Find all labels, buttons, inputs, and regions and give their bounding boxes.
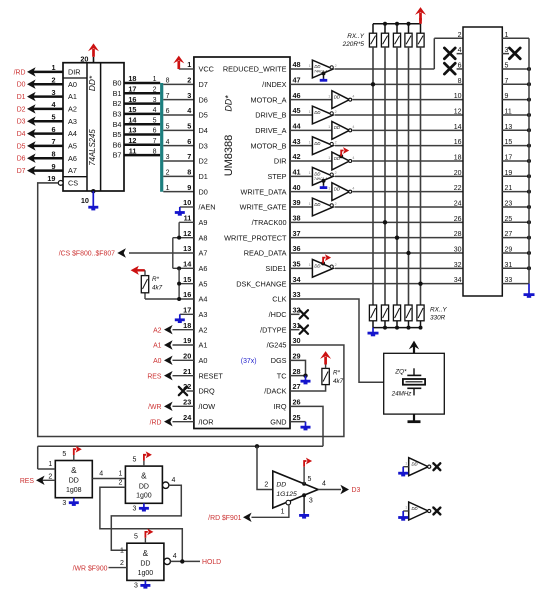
svg-text:11: 11 bbox=[129, 146, 137, 155]
svg-text:A5: A5 bbox=[199, 279, 208, 288]
svg-text:D7: D7 bbox=[199, 80, 208, 89]
svg-text:2: 2 bbox=[264, 482, 268, 489]
svg-text:DD: DD bbox=[314, 202, 320, 207]
74LS245 pin 20 VCC bbox=[93, 57, 95, 63]
svg-text:GND: GND bbox=[270, 417, 286, 426]
svg-text:/G245: /G245 bbox=[267, 341, 287, 350]
svg-text:15: 15 bbox=[128, 105, 136, 114]
svg-text:22: 22 bbox=[454, 185, 462, 192]
svg-text:A0: A0 bbox=[68, 80, 77, 89]
svg-text:DD: DD bbox=[314, 172, 320, 177]
connector pin 3 bbox=[502, 53, 509, 55]
svg-text:21: 21 bbox=[505, 185, 513, 192]
row 34 DSK_CHANGE wire bbox=[290, 283, 463, 285]
svg-text:4: 4 bbox=[99, 470, 103, 477]
svg-text:4: 4 bbox=[352, 186, 354, 190]
svg-text:13: 13 bbox=[128, 126, 136, 135]
svg-text:DD*: DD* bbox=[87, 75, 97, 91]
svg-text:12: 12 bbox=[183, 229, 191, 238]
svg-text:5: 5 bbox=[505, 62, 509, 69]
connector pin 9 bbox=[502, 99, 529, 101]
svg-text:33: 33 bbox=[505, 277, 513, 284]
svg-text:R*: R* bbox=[333, 370, 341, 377]
svg-text:A7: A7 bbox=[199, 249, 208, 258]
svg-text:DD: DD bbox=[69, 478, 79, 485]
svg-text:10: 10 bbox=[454, 93, 462, 100]
svg-text:220R*5: 220R*5 bbox=[342, 41, 365, 48]
wire B6 bbox=[124, 144, 160, 147]
svg-text:DD: DD bbox=[334, 125, 340, 130]
svg-text:/DACK: /DACK bbox=[264, 387, 286, 396]
svg-text:/RD: /RD bbox=[150, 419, 162, 426]
svg-text:1: 1 bbox=[309, 171, 311, 175]
svg-text:2: 2 bbox=[335, 110, 337, 114]
row 38 /TRACK00 wire bbox=[290, 221, 463, 223]
svg-text:1: 1 bbox=[328, 156, 330, 160]
svg-text:D6: D6 bbox=[199, 95, 208, 104]
svg-text:2: 2 bbox=[335, 202, 337, 206]
wire 1g00A out to 1g00B pin1 bbox=[111, 485, 181, 550]
svg-text:D1: D1 bbox=[17, 94, 26, 101]
svg-text:A4: A4 bbox=[68, 129, 77, 138]
svg-text:B4: B4 bbox=[113, 120, 122, 129]
svg-text:36: 36 bbox=[293, 244, 301, 253]
pull-up/down columns bbox=[372, 47, 374, 305]
svg-text:1: 1 bbox=[405, 461, 407, 465]
svg-text:B3: B3 bbox=[113, 110, 122, 119]
resistor R* 4k7 (address pull-up) bbox=[144, 293, 146, 299]
svg-text:/DTYPE: /DTYPE bbox=[260, 325, 286, 334]
wire B5 bbox=[124, 133, 160, 136]
wire B3 bbox=[124, 113, 160, 116]
svg-text:5: 5 bbox=[308, 476, 312, 483]
wire A2 pin18 bbox=[173, 329, 194, 331]
svg-text:20: 20 bbox=[183, 352, 191, 361]
svg-text:24: 24 bbox=[183, 413, 192, 422]
svg-text:DD: DD bbox=[334, 156, 340, 161]
connector pin 11 bbox=[502, 114, 529, 116]
svg-text:1G125: 1G125 bbox=[276, 491, 297, 498]
connector pin 31 bbox=[502, 267, 529, 269]
svg-text:18: 18 bbox=[128, 74, 136, 83]
svg-text:18: 18 bbox=[183, 321, 191, 330]
svg-text:4k7: 4k7 bbox=[333, 378, 344, 385]
svg-text:A6: A6 bbox=[199, 264, 208, 273]
svg-text:D5: D5 bbox=[17, 143, 26, 150]
row 36 READ_DATA wire bbox=[290, 252, 463, 254]
svg-text:DGS: DGS bbox=[271, 356, 287, 365]
svg-text:3: 3 bbox=[166, 154, 170, 161]
svg-text:7: 7 bbox=[51, 137, 55, 146]
svg-text:2: 2 bbox=[48, 473, 52, 480]
svg-text:RESET: RESET bbox=[199, 371, 224, 380]
wire D7 bbox=[31, 169, 63, 172]
svg-text:8: 8 bbox=[153, 148, 157, 155]
buffer U3 row48 (inverter with gnd) bbox=[312, 60, 333, 78]
svg-text:A7: A7 bbox=[68, 166, 77, 175]
A9/A8/A6/A5/A4 tie bracket bbox=[179, 221, 194, 223]
resistor network RX.Y 220R*5 bbox=[373, 23, 421, 25]
svg-text:RX..Y: RX..Y bbox=[430, 307, 447, 314]
svg-text:B7: B7 bbox=[113, 151, 122, 160]
svg-text:43: 43 bbox=[293, 137, 301, 146]
svg-text:WRITE_DATA: WRITE_DATA bbox=[241, 187, 287, 196]
svg-text:/TRACK00: /TRACK00 bbox=[252, 218, 287, 227]
svg-text:1: 1 bbox=[281, 509, 285, 516]
wire B0 bbox=[124, 82, 160, 85]
svg-text:DD: DD bbox=[314, 64, 320, 69]
connector pin 21 bbox=[502, 191, 529, 193]
svg-text:6: 6 bbox=[166, 108, 170, 115]
DRQ pin22 no-connect X bbox=[187, 390, 194, 392]
svg-text:15: 15 bbox=[505, 139, 513, 146]
svg-text:A1: A1 bbox=[68, 92, 77, 101]
row 45 DRIVE_B + buffer bbox=[290, 114, 312, 116]
wire B1 bbox=[124, 92, 160, 95]
svg-text:D1: D1 bbox=[199, 172, 208, 181]
svg-text:41: 41 bbox=[293, 168, 301, 177]
wire D0 bbox=[31, 83, 63, 86]
svg-text:6: 6 bbox=[153, 128, 157, 135]
connector pin 27 bbox=[502, 237, 529, 239]
connector pin 7 bbox=[502, 83, 529, 85]
connector odd-pin ground bus bbox=[528, 38, 530, 283]
row 33 CLK wire to crystal bbox=[290, 299, 384, 382]
svg-text:2: 2 bbox=[335, 263, 337, 267]
svg-text:14: 14 bbox=[183, 260, 192, 269]
svg-text:4: 4 bbox=[172, 477, 176, 484]
1G125 pin3 ground bbox=[302, 493, 306, 497]
wire /WR pin23 bbox=[173, 405, 194, 407]
svg-text:25: 25 bbox=[505, 216, 513, 223]
svg-text:MOTOR_A: MOTOR_A bbox=[251, 95, 287, 104]
wire D6 bbox=[31, 157, 63, 160]
NAND gate U6 1g00 (latch B) bbox=[127, 543, 164, 580]
crystal oscillator module ZQ* 24MHz bbox=[384, 353, 445, 414]
svg-text:REDUCED_WRITE: REDUCED_WRITE bbox=[223, 65, 287, 74]
svg-text:/AEN: /AEN bbox=[199, 203, 216, 212]
svg-text:A2: A2 bbox=[68, 104, 77, 113]
svg-text:DD: DD bbox=[334, 186, 340, 191]
1G125 pin1 enable /RD $F901 bbox=[286, 500, 291, 505]
svg-text:5: 5 bbox=[62, 451, 66, 458]
svg-text:1: 1 bbox=[51, 63, 55, 72]
svg-text:2: 2 bbox=[458, 32, 462, 39]
svg-text:1: 1 bbox=[120, 547, 124, 554]
svg-text:23: 23 bbox=[183, 398, 191, 407]
svg-text:21: 21 bbox=[183, 367, 191, 376]
svg-text:A1: A1 bbox=[199, 341, 208, 350]
row 39 WRITE_GATE + buffer bbox=[290, 206, 312, 208]
svg-text:1g00: 1g00 bbox=[136, 493, 152, 500]
teal data bus bbox=[160, 83, 163, 192]
pin 26 IRQ wire down to logic rail bbox=[290, 406, 323, 446]
svg-text:10: 10 bbox=[81, 196, 89, 205]
svg-text:9: 9 bbox=[187, 183, 191, 192]
svg-text:2: 2 bbox=[335, 171, 337, 175]
net /G245 from pin30 to 74LS245 CS bbox=[38, 183, 344, 437]
svg-text:1: 1 bbox=[505, 32, 509, 39]
connector pin 17 bbox=[502, 160, 529, 162]
wire D5 bbox=[163, 114, 194, 116]
svg-text:28: 28 bbox=[454, 231, 462, 238]
svg-text:D4: D4 bbox=[17, 131, 26, 138]
svg-text:37: 37 bbox=[293, 229, 301, 238]
svg-text:A9: A9 bbox=[199, 218, 208, 227]
svg-text:15: 15 bbox=[183, 275, 191, 284]
svg-text:4k7: 4k7 bbox=[152, 285, 163, 292]
wire /RD pin24 bbox=[173, 421, 194, 423]
oscillator bottom ground (black) bbox=[413, 414, 415, 421]
pin31 /DTYPE no-connect X bbox=[290, 329, 300, 331]
AND gate U4 1g08 bbox=[55, 461, 92, 498]
connector pin 6 bbox=[457, 68, 463, 70]
svg-text:R*: R* bbox=[152, 276, 160, 283]
svg-text:46: 46 bbox=[293, 91, 301, 100]
unused buffer A bbox=[409, 458, 429, 476]
svg-text:12: 12 bbox=[128, 136, 136, 145]
svg-text:3: 3 bbox=[309, 497, 313, 504]
svg-text:19: 19 bbox=[47, 174, 55, 183]
svg-text:34: 34 bbox=[293, 275, 302, 284]
connector pin 5 bbox=[502, 68, 529, 70]
row 44 DRIVE_A + buffer bbox=[290, 129, 332, 131]
svg-text:1: 1 bbox=[309, 64, 311, 68]
svg-text:7: 7 bbox=[153, 138, 157, 145]
svg-text:DIR: DIR bbox=[274, 157, 287, 166]
row 35 SIDE1 + buffer with VCC arrow bbox=[290, 267, 312, 269]
row 47 /INDEX wire bbox=[290, 83, 463, 85]
svg-text:26: 26 bbox=[293, 398, 301, 407]
oscillator top arrow bbox=[413, 345, 415, 353]
svg-text:45: 45 bbox=[293, 106, 301, 115]
ground on RX.Y 330R bbox=[372, 328, 374, 333]
connector X1 (34-pin FDD header) bbox=[463, 27, 502, 296]
svg-text:WRITE_GATE: WRITE_GATE bbox=[240, 203, 287, 212]
wire D2 bbox=[163, 160, 194, 162]
IRQ logic rail bbox=[38, 445, 323, 447]
svg-text:(37x): (37x) bbox=[241, 358, 257, 365]
svg-text:23: 23 bbox=[505, 200, 513, 207]
row 43 MOTOR_B + buffer bbox=[290, 145, 312, 147]
svg-text:RX..Y: RX..Y bbox=[347, 33, 364, 40]
svg-text:DD: DD bbox=[276, 482, 286, 489]
svg-text:D7: D7 bbox=[17, 168, 26, 175]
/CS $F800..$F807 signal into A7 bbox=[129, 252, 194, 254]
svg-text:STEP: STEP bbox=[267, 172, 286, 181]
svg-text:3: 3 bbox=[187, 91, 191, 100]
svg-text:4: 4 bbox=[352, 156, 354, 160]
row 41 STEP + buffer (inverter with gnd) bbox=[290, 175, 312, 177]
svg-text:2: 2 bbox=[166, 170, 170, 177]
svg-text:RES: RES bbox=[147, 373, 162, 380]
svg-text:1: 1 bbox=[405, 506, 407, 510]
row 46 MOTOR_A + buffer bbox=[290, 99, 332, 101]
wire D3 bbox=[31, 120, 63, 123]
svg-text:11: 11 bbox=[505, 108, 512, 115]
svg-text:2: 2 bbox=[335, 64, 337, 68]
svg-text:1: 1 bbox=[118, 470, 122, 477]
svg-text:4: 4 bbox=[153, 107, 157, 114]
svg-text:40: 40 bbox=[293, 183, 301, 192]
tri-state buffer U7 1G125 bbox=[273, 471, 318, 508]
VCC arrow on RX.Y 220R bbox=[419, 18, 422, 24]
svg-text:32: 32 bbox=[454, 262, 462, 269]
svg-text:13: 13 bbox=[183, 244, 191, 253]
svg-text:DD*: DD* bbox=[223, 95, 233, 112]
svg-text:&: & bbox=[143, 549, 149, 558]
svg-text:D0: D0 bbox=[199, 187, 208, 196]
svg-text:1: 1 bbox=[328, 186, 330, 190]
wire B4 bbox=[124, 123, 160, 126]
74LS245 pin 10 ground bbox=[91, 189, 95, 193]
svg-text:DD: DD bbox=[314, 264, 320, 269]
NAND gate U5 1g00 (latch A) bbox=[125, 466, 162, 503]
row 40 WRITE_DATA + buffer bbox=[290, 191, 332, 193]
svg-text:4: 4 bbox=[173, 553, 177, 560]
svg-text:MOTOR_B: MOTOR_B bbox=[251, 141, 287, 150]
svg-text:2: 2 bbox=[120, 560, 124, 567]
svg-text:17: 17 bbox=[128, 85, 136, 94]
svg-text:29: 29 bbox=[293, 352, 301, 361]
svg-text:29: 29 bbox=[505, 246, 513, 253]
svg-text:2: 2 bbox=[153, 87, 157, 94]
svg-text:WRITE_PROTECT: WRITE_PROTECT bbox=[224, 233, 287, 242]
/WR $F900 input bbox=[109, 567, 127, 569]
svg-text:B1: B1 bbox=[113, 89, 122, 98]
svg-text:DRIVE_B: DRIVE_B bbox=[255, 111, 286, 120]
svg-text:5: 5 bbox=[132, 457, 136, 464]
svg-text:DD: DD bbox=[139, 483, 149, 490]
svg-text:CLK: CLK bbox=[272, 295, 286, 304]
svg-text:/INDEX: /INDEX bbox=[262, 80, 286, 89]
svg-text:7: 7 bbox=[187, 152, 191, 161]
wire RES pin21 bbox=[173, 375, 194, 377]
svg-text:D3: D3 bbox=[199, 141, 208, 150]
svg-text:27: 27 bbox=[293, 382, 301, 391]
svg-text:A1: A1 bbox=[153, 343, 162, 350]
svg-text:74ALS245: 74ALS245 bbox=[88, 129, 97, 166]
resistor network RX.Y 330R bbox=[369, 305, 376, 321]
svg-text:A3: A3 bbox=[68, 117, 77, 126]
svg-text:IRQ: IRQ bbox=[274, 402, 287, 411]
connector pin 25 bbox=[502, 221, 529, 223]
pin 25 GND ground bbox=[290, 421, 306, 423]
svg-text:30: 30 bbox=[293, 336, 301, 345]
HOLD output bbox=[170, 560, 200, 562]
svg-text:1: 1 bbox=[48, 461, 52, 468]
svg-text:DD: DD bbox=[412, 506, 418, 511]
svg-text:6: 6 bbox=[458, 62, 462, 69]
svg-text:35: 35 bbox=[293, 260, 301, 269]
svg-text:D4: D4 bbox=[199, 126, 208, 135]
svg-text:10: 10 bbox=[183, 198, 191, 207]
svg-text:1: 1 bbox=[309, 140, 311, 144]
svg-text:1: 1 bbox=[328, 125, 330, 129]
svg-text:1: 1 bbox=[153, 76, 157, 83]
svg-text:7: 7 bbox=[166, 93, 170, 100]
svg-text:42: 42 bbox=[293, 152, 301, 161]
svg-text:28: 28 bbox=[293, 367, 301, 376]
svg-text:HOLD: HOLD bbox=[202, 559, 221, 566]
svg-text:3: 3 bbox=[51, 88, 55, 97]
row 42 DIR + buffer with VCC arrow bbox=[290, 160, 332, 162]
svg-text:3: 3 bbox=[505, 47, 509, 54]
connector pin 19 bbox=[502, 175, 529, 177]
UM8388 pin1 VCC arrow bbox=[179, 68, 194, 70]
svg-text:SIDE1: SIDE1 bbox=[265, 264, 286, 273]
svg-text:14: 14 bbox=[454, 124, 462, 131]
svg-text:9: 9 bbox=[505, 93, 509, 100]
svg-text:34: 34 bbox=[454, 277, 462, 284]
svg-text:DD: DD bbox=[334, 94, 340, 99]
svg-text:19: 19 bbox=[505, 170, 513, 177]
wire D5 bbox=[31, 145, 63, 148]
svg-text:A0: A0 bbox=[153, 358, 162, 365]
connector pin 33 bbox=[502, 283, 529, 285]
wire to 1G125 input bbox=[257, 446, 273, 489]
svg-text:TC: TC bbox=[277, 371, 287, 380]
svg-text:2: 2 bbox=[118, 479, 122, 486]
svg-text:7: 7 bbox=[505, 78, 509, 85]
svg-text:D3: D3 bbox=[17, 119, 26, 126]
row 37 WRITE_PROTECT wire bbox=[290, 237, 463, 239]
svg-text:16: 16 bbox=[454, 139, 462, 146]
svg-text:&: & bbox=[71, 466, 77, 475]
wire rail to 1g08 pin1 bbox=[38, 468, 56, 470]
svg-text:ZQ*: ZQ* bbox=[394, 369, 407, 376]
svg-text:17: 17 bbox=[505, 154, 513, 161]
svg-text:17: 17 bbox=[183, 306, 191, 315]
svg-text:A8: A8 bbox=[199, 233, 208, 242]
svg-text:30: 30 bbox=[454, 246, 462, 253]
svg-text:26: 26 bbox=[454, 216, 462, 223]
svg-text:24MHz: 24MHz bbox=[391, 390, 413, 397]
svg-text:/HDC: /HDC bbox=[269, 310, 287, 319]
svg-text:48: 48 bbox=[293, 60, 301, 69]
svg-text:8: 8 bbox=[458, 78, 462, 85]
svg-text:14: 14 bbox=[128, 115, 137, 124]
wire D4 bbox=[163, 129, 194, 131]
svg-text:A4: A4 bbox=[199, 295, 208, 304]
connector pin 29 bbox=[502, 252, 529, 254]
svg-text:44: 44 bbox=[293, 122, 302, 131]
svg-text:16: 16 bbox=[183, 290, 191, 299]
svg-text:1: 1 bbox=[309, 110, 311, 114]
svg-text:20: 20 bbox=[454, 170, 462, 177]
UM8388 pin10 /AEN ground bbox=[180, 206, 194, 208]
svg-text:DD: DD bbox=[314, 141, 320, 146]
connector pin 13 bbox=[502, 129, 529, 131]
svg-text:8: 8 bbox=[51, 149, 55, 158]
svg-text:B6: B6 bbox=[113, 140, 122, 149]
svg-text:&: & bbox=[141, 472, 147, 481]
pin32 /HDC no-connect X bbox=[290, 313, 300, 315]
RES input to 1g08 bbox=[40, 479, 55, 481]
svg-text:DD: DD bbox=[140, 560, 150, 567]
svg-text:/CS $F800..$F807: /CS $F800..$F807 bbox=[59, 251, 115, 258]
svg-text:25: 25 bbox=[293, 413, 301, 422]
svg-text:1: 1 bbox=[166, 185, 170, 192]
svg-text:UM8388: UM8388 bbox=[223, 135, 235, 177]
svg-text:4: 4 bbox=[352, 125, 354, 129]
svg-text:19: 19 bbox=[183, 336, 191, 345]
crystal symbol bbox=[413, 368, 415, 375]
connector pin 1 bbox=[502, 37, 529, 39]
svg-text:5: 5 bbox=[166, 124, 170, 131]
svg-text:READ_DATA: READ_DATA bbox=[244, 249, 287, 258]
svg-text:330R: 330R bbox=[430, 315, 446, 322]
